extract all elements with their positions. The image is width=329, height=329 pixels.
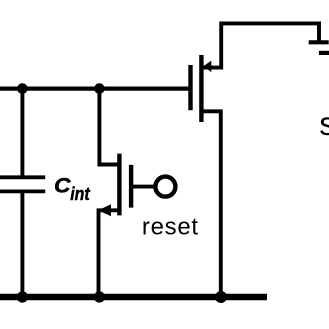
svg-text:reset: reset xyxy=(142,214,199,241)
M3 channel bar xyxy=(319,51,329,55)
M2 channel bar xyxy=(117,154,121,216)
node junction dot: integration node at reset drain branch xyxy=(94,83,105,94)
M3 gate bar xyxy=(309,40,329,44)
ground junction dot: M2 source xyxy=(94,291,105,302)
M2 gate lead xyxy=(132,185,155,189)
capacitor C_int xyxy=(0,177,45,191)
svg-text:int: int xyxy=(70,183,91,205)
M2 source arrow xyxy=(98,204,111,216)
ground junction dot: C_int bottom xyxy=(17,291,28,302)
ground rail xyxy=(0,294,267,301)
wire: capacitor C_int top lead xyxy=(20,88,24,177)
wire: input net along top to gate of M1 xyxy=(0,86,192,90)
M1 channel bar xyxy=(199,55,203,122)
transistor M2 (reset switch) xyxy=(98,90,175,297)
wire: M2 drain lead from node down and to channel xyxy=(99,90,118,165)
M2 gate bar xyxy=(129,165,133,208)
wire: M3 gate stub xyxy=(317,23,321,44)
label C_int xyxy=(54,173,91,204)
wire: M1 source lead down to ground rail xyxy=(204,111,221,297)
M1 gate bar xyxy=(188,65,192,110)
wire: capacitor C_int bottom lead to ground rail xyxy=(20,191,24,297)
transistor M3 (output device, cut off at right edge) xyxy=(309,23,329,53)
node junction dot: integration node at capacitor top xyxy=(17,83,28,94)
M1 drain arrow xyxy=(203,61,211,73)
ground junction dot: M1 source xyxy=(215,291,227,303)
M2 gate terminal circle (reset input) xyxy=(155,177,175,197)
svg-text:s: s xyxy=(319,105,329,142)
wire: M1 drain lead up and across to M3 gate xyxy=(204,23,322,67)
svg-text:C: C xyxy=(54,173,72,197)
transistor M1 (amplifier input device) xyxy=(191,23,322,297)
M2 source lead and wire down to ground rail xyxy=(99,210,119,297)
